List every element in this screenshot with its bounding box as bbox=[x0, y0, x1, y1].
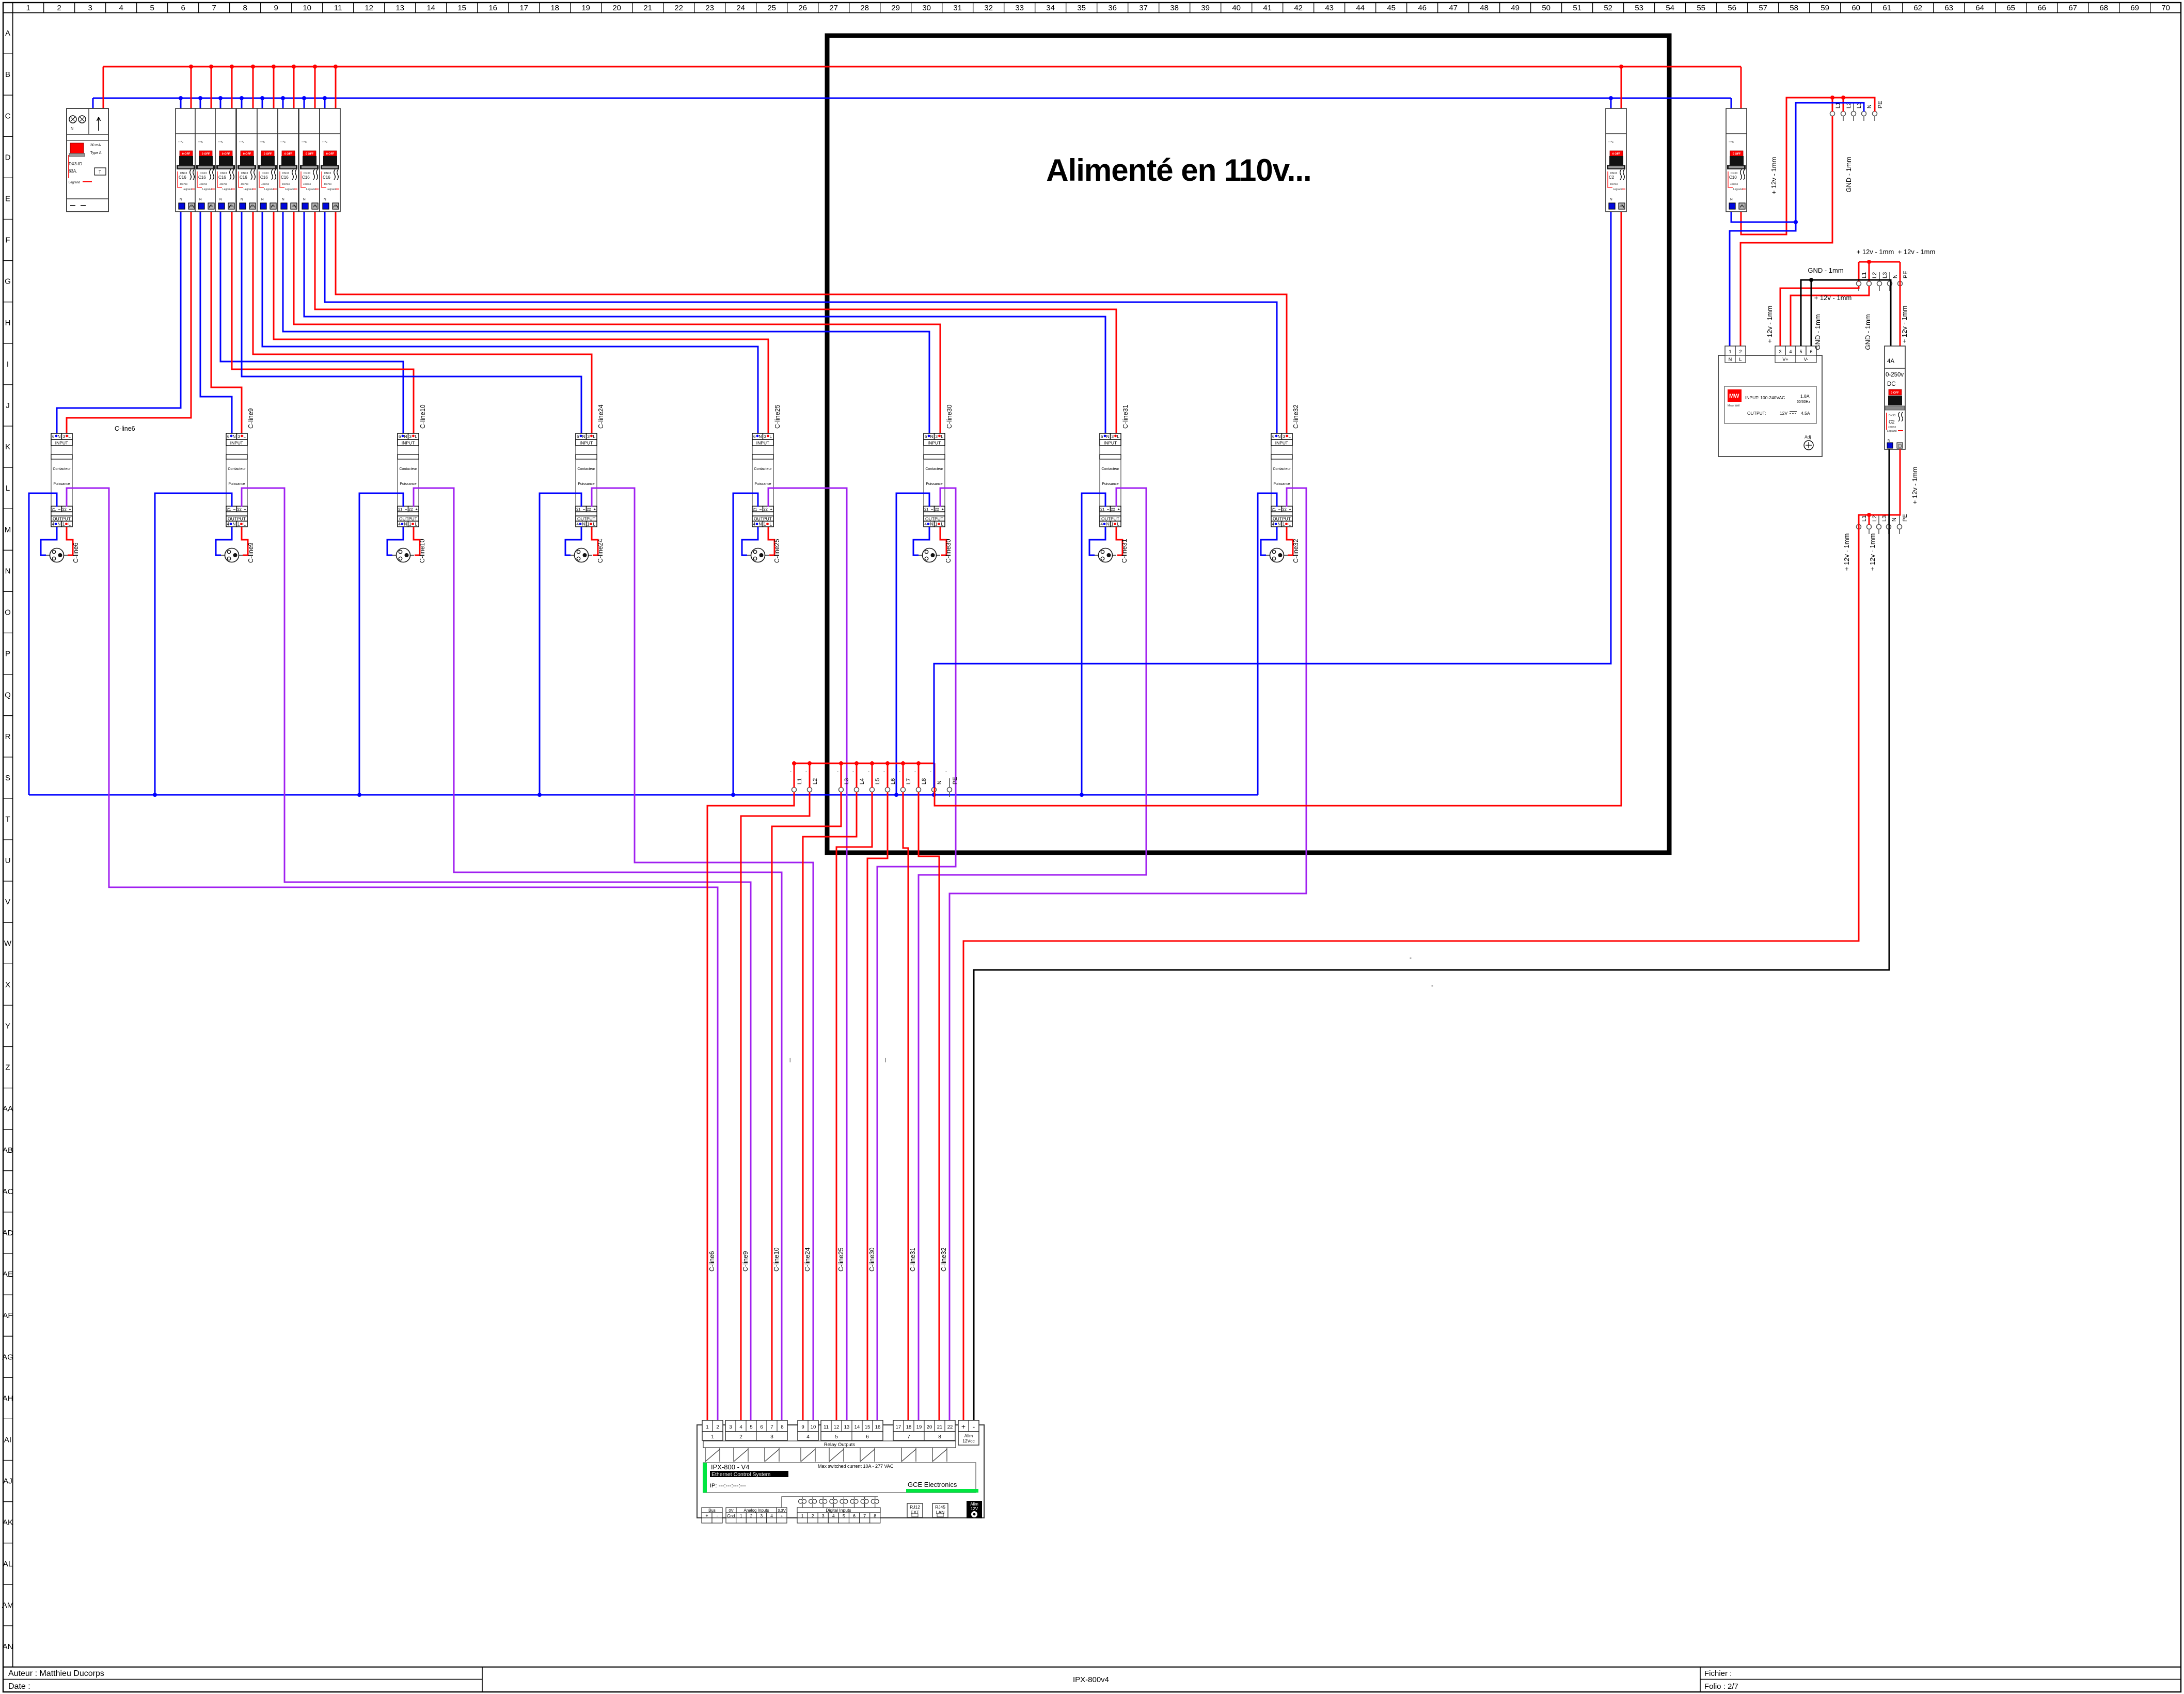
svg-text:20: 20 bbox=[612, 4, 621, 12]
svg-text:3.3V: 3.3V bbox=[778, 1508, 785, 1513]
svg-text:42: 42 bbox=[1294, 4, 1303, 12]
wire GND to IPX bbox=[974, 449, 1889, 1420]
svg-text:AG: AG bbox=[2, 1353, 13, 1361]
svg-text:48: 48 bbox=[1480, 4, 1489, 12]
breaker Q11 4A DC bbox=[1885, 346, 1905, 449]
breaker Q3 C16 bbox=[215, 108, 236, 212]
terminal X2:L1 bbox=[1830, 102, 1835, 121]
svg-text:33: 33 bbox=[1015, 4, 1024, 12]
wire relay common 3 bbox=[772, 792, 841, 1420]
wire breaker Q4 N drop bbox=[241, 98, 243, 109]
contactor KM7 C-line31 bbox=[1100, 433, 1121, 527]
svg-text:L1: L1 bbox=[1861, 515, 1868, 522]
wire breaker Q7 N drop bbox=[304, 98, 305, 109]
svg-text:C10: C10 bbox=[1729, 175, 1737, 180]
wire breaker Q4 L drop bbox=[252, 67, 254, 109]
svg-text:36: 36 bbox=[1108, 4, 1117, 12]
wire feed C-line30 L bbox=[294, 212, 940, 436]
svg-text:10: 10 bbox=[303, 4, 311, 12]
svg-text:41: 41 bbox=[1263, 4, 1272, 12]
svg-text:+ 12v - 1mm: + 12v - 1mm bbox=[1857, 248, 1894, 256]
svg-text:X: X bbox=[5, 980, 10, 989]
svg-text:6: 6 bbox=[1810, 349, 1812, 354]
svg-text:+ 12v - 1mm: + 12v - 1mm bbox=[1814, 294, 1852, 302]
wire socket C-line6 N bbox=[41, 527, 57, 555]
svg-text:46: 46 bbox=[1418, 4, 1427, 12]
wire coil + C-line24 bbox=[592, 488, 813, 1420]
svg-text:N: N bbox=[1866, 104, 1873, 108]
top ruler column strip bbox=[3, 12, 2181, 13]
terminal X3:L3 bbox=[1877, 272, 1882, 291]
svg-text:68: 68 bbox=[2099, 4, 2108, 12]
svg-text:+ 12v - 1mm: + 12v - 1mm bbox=[1869, 534, 1876, 571]
svg-text:AA: AA bbox=[3, 1105, 13, 1113]
svg-text:C-line32: C-line32 bbox=[1292, 539, 1300, 563]
wire socket C-line32 N bbox=[1261, 527, 1277, 555]
svg-text:-: - bbox=[930, 769, 931, 774]
svg-text:O: O bbox=[5, 608, 11, 617]
socket outlet C-line25 bbox=[747, 548, 769, 562]
node junction 427,190 bbox=[218, 96, 223, 100]
svg-text:4: 4 bbox=[1789, 349, 1792, 354]
svg-text:Digital Inputs: Digital Inputs bbox=[826, 1508, 851, 1513]
differential switch DX3-ID 63A bbox=[67, 108, 108, 212]
svg-text:29: 29 bbox=[891, 4, 900, 12]
contactor KM4 C-line24 bbox=[576, 433, 597, 527]
svg-text:G: G bbox=[5, 277, 11, 286]
svg-text:406763: 406763 bbox=[1888, 426, 1896, 428]
svg-text:1: 1 bbox=[1729, 349, 1731, 354]
wire coil - C-line30 bbox=[896, 493, 929, 795]
node junction 3620,507 bbox=[1867, 260, 1871, 264]
svg-text:32: 32 bbox=[984, 4, 993, 12]
svg-text:11: 11 bbox=[334, 4, 342, 12]
wire breaker Q5 L drop bbox=[273, 67, 275, 109]
wire X4 L2 stub bbox=[1869, 515, 1870, 525]
node junction 1568,1478 bbox=[808, 761, 812, 765]
wire coil - C-line24 bbox=[540, 493, 581, 795]
svg-text:Adj: Adj bbox=[1805, 434, 1811, 440]
svg-text:20: 20 bbox=[927, 1424, 932, 1430]
wire N feed from Q9 bbox=[934, 212, 1611, 788]
wire X1 L8 stub bbox=[918, 763, 920, 788]
svg-text:INPUT: 100-240VAC: INPUT: 100-240VAC bbox=[1745, 395, 1785, 400]
svg-text:44: 44 bbox=[1356, 4, 1365, 12]
svg-text:24: 24 bbox=[736, 4, 745, 12]
wire X3 12v jumper bbox=[1859, 261, 1900, 263]
wire X3 L2 stub bbox=[1869, 262, 1870, 281]
svg-text:14: 14 bbox=[854, 1424, 860, 1430]
node junction 696,1539 bbox=[357, 793, 361, 797]
svg-text:AJ: AJ bbox=[3, 1477, 12, 1486]
wire relay common 5 bbox=[836, 792, 872, 1420]
svg-text:62: 62 bbox=[1913, 4, 1922, 12]
svg-text:69: 69 bbox=[2130, 4, 2139, 12]
svg-text:-: - bbox=[805, 769, 807, 774]
wire feed C-line24 L bbox=[253, 212, 592, 436]
svg-text:+ 12v - 1mm: + 12v - 1mm bbox=[1898, 248, 1936, 256]
terminal X1:N bbox=[932, 778, 937, 797]
wire coil + C-line6 bbox=[67, 488, 718, 1420]
wire Q10 L to X2 bbox=[1741, 98, 1875, 234]
svg-text:26: 26 bbox=[798, 4, 807, 12]
svg-text:Folio : 2/7: Folio : 2/7 bbox=[1704, 1682, 1738, 1691]
wire 12v+ B bbox=[1791, 286, 1869, 346]
wire coil + C-line10 bbox=[414, 488, 782, 1420]
wire 12v feed from Q9 bbox=[935, 212, 1621, 806]
svg-text:Q: Q bbox=[5, 691, 11, 700]
wire breaker Q6 L drop bbox=[293, 67, 295, 109]
wire 12v to Q11 bbox=[1900, 262, 1901, 346]
svg-text:63A.: 63A. bbox=[69, 169, 77, 174]
wire feed C-line31 N bbox=[304, 212, 1105, 436]
svg-text:15: 15 bbox=[457, 4, 466, 12]
svg-text:+ 12v - 1mm: + 12v - 1mm bbox=[1901, 306, 1908, 343]
svg-text:L7: L7 bbox=[906, 778, 912, 785]
svg-text:22: 22 bbox=[674, 4, 683, 12]
wire feed C-line9 N bbox=[200, 212, 232, 436]
svg-text:V+: V+ bbox=[1782, 357, 1788, 362]
svg-text:12Vcc: 12Vcc bbox=[962, 1438, 975, 1444]
svg-text:|: | bbox=[885, 1057, 886, 1062]
wire coil - C-line31 bbox=[1082, 493, 1105, 795]
svg-text:2: 2 bbox=[739, 1434, 742, 1440]
svg-text:RJ12: RJ12 bbox=[910, 1504, 920, 1510]
svg-text:C-line30: C-line30 bbox=[868, 1247, 876, 1272]
terminal X4:L1 bbox=[1857, 515, 1861, 534]
node junction 300,1539 bbox=[153, 793, 157, 797]
svg-text:N: N bbox=[1892, 274, 1898, 278]
svg-text:8: 8 bbox=[243, 4, 247, 12]
svg-text:DC: DC bbox=[1887, 381, 1896, 387]
svg-text:66: 66 bbox=[2037, 4, 2046, 12]
svg-text:43: 43 bbox=[1325, 4, 1334, 12]
svg-text:16: 16 bbox=[488, 4, 497, 12]
svg-text:GND - 1mm: GND - 1mm bbox=[1814, 314, 1822, 350]
svg-text:C-line9: C-line9 bbox=[247, 408, 255, 429]
svg-text:AF: AF bbox=[3, 1311, 12, 1320]
svg-text:27: 27 bbox=[829, 4, 838, 12]
wire breaker Q6 N drop bbox=[282, 98, 284, 109]
node junction 3120,190 bbox=[1609, 96, 1613, 100]
svg-text:+ 12v - 1mm: + 12v - 1mm bbox=[1770, 157, 1778, 195]
contactor KM1 C-line6 bbox=[51, 433, 72, 527]
wire 12v+ A bbox=[1780, 286, 1859, 346]
svg-text:B: B bbox=[5, 70, 10, 79]
svg-text:55: 55 bbox=[1697, 4, 1705, 12]
node junction 1629,1478 bbox=[839, 761, 843, 765]
node junction 508,190 bbox=[260, 96, 264, 100]
svg-text:-: - bbox=[868, 769, 869, 774]
svg-text:Type A: Type A bbox=[90, 151, 102, 155]
svg-text:40: 40 bbox=[1232, 4, 1241, 12]
svg-text:-: - bbox=[883, 769, 885, 774]
svg-text:C2: C2 bbox=[1609, 175, 1615, 180]
svg-text:1: 1 bbox=[26, 4, 30, 12]
svg-text:AK: AK bbox=[3, 1518, 13, 1527]
svg-text:64: 64 bbox=[1975, 4, 1984, 12]
node junction 650,129 bbox=[334, 65, 338, 69]
svg-text:A: A bbox=[5, 29, 10, 38]
svg-text:GND - 1mm: GND - 1mm bbox=[1864, 314, 1872, 350]
svg-text:8: 8 bbox=[781, 1424, 783, 1430]
terminal X4:PE bbox=[1897, 515, 1902, 534]
module IPX-800 V4 bbox=[697, 1420, 984, 1523]
wire socket C-line31 L bbox=[1116, 527, 1122, 555]
svg-text:C-line9: C-line9 bbox=[247, 542, 255, 563]
svg-text:C-line32: C-line32 bbox=[1292, 404, 1300, 429]
svg-text:Max switched current 10A - 277: Max switched current 10A - 277 VAC bbox=[818, 1464, 894, 1469]
svg-text:+ 12v - 1mm: + 12v - 1mm bbox=[1766, 306, 1774, 343]
wire feed C-line30 N bbox=[283, 212, 929, 436]
wire feed C-line24 N bbox=[242, 212, 581, 436]
svg-text:18: 18 bbox=[550, 4, 559, 12]
breaker Q10 C10 bbox=[1726, 108, 1747, 212]
svg-text:30 mA: 30 mA bbox=[90, 144, 101, 147]
node junction 629,190 bbox=[323, 96, 327, 100]
terminal X3:PE bbox=[1898, 272, 1903, 291]
svg-text:-: - bbox=[973, 1422, 975, 1431]
svg-text:21: 21 bbox=[937, 1424, 943, 1430]
wire feed C-line31 L bbox=[315, 212, 1116, 436]
svg-text:25: 25 bbox=[767, 4, 776, 12]
svg-text:C-line30: C-line30 bbox=[945, 539, 952, 563]
svg-text:9: 9 bbox=[274, 4, 278, 12]
svg-text:AE: AE bbox=[3, 1270, 13, 1279]
wire breaker Q8 N drop bbox=[324, 98, 326, 109]
contactor KM3 C-line10 bbox=[398, 433, 419, 527]
svg-text:6: 6 bbox=[181, 4, 185, 12]
svg-text:47: 47 bbox=[1449, 4, 1458, 12]
svg-text:4: 4 bbox=[119, 4, 123, 12]
svg-text:7: 7 bbox=[907, 1434, 910, 1440]
svg-text:AB: AB bbox=[3, 1146, 13, 1155]
svg-text:IPX-800v4: IPX-800v4 bbox=[1073, 1675, 1109, 1684]
svg-text:Legrand: Legrand bbox=[1887, 430, 1897, 433]
wire blue bus bbox=[93, 98, 1731, 99]
node junction 1538,1478 bbox=[792, 761, 796, 765]
svg-text:DNX3: DNX3 bbox=[1889, 414, 1896, 417]
wire relay common 4 bbox=[803, 792, 857, 1420]
terminal X3:L2 bbox=[1867, 272, 1872, 291]
svg-text:0V: 0V bbox=[729, 1508, 733, 1513]
node junction 2095,1539 bbox=[1080, 793, 1084, 797]
svg-text:N: N bbox=[71, 127, 73, 131]
node junction 1420,1539 bbox=[731, 793, 735, 797]
wire socket C-line9 N bbox=[216, 527, 232, 555]
terminal X4:L2 bbox=[1867, 515, 1872, 534]
wire breaker Q9 L drop bbox=[1621, 67, 1622, 109]
wire coil + C-line32 bbox=[949, 488, 1306, 1420]
svg-text:17: 17 bbox=[519, 4, 528, 12]
breaker Q9 C2 bbox=[1606, 108, 1626, 212]
terminal X1:L2 bbox=[808, 778, 812, 797]
svg-text:PE: PE bbox=[1903, 271, 1909, 278]
svg-text:2: 2 bbox=[716, 1424, 719, 1430]
svg-text:Alimenté en 110v...: Alimenté en 110v... bbox=[1046, 153, 1311, 187]
svg-text:-: - bbox=[914, 769, 916, 774]
svg-text:19: 19 bbox=[916, 1424, 922, 1430]
wire X1 12v jumper bbox=[794, 763, 935, 764]
svg-text:8: 8 bbox=[938, 1434, 941, 1440]
node junction 1749,1478 bbox=[901, 761, 905, 765]
svg-text:C-line6: C-line6 bbox=[115, 425, 135, 432]
wire socket C-line30 L bbox=[940, 527, 946, 555]
svg-text:Z: Z bbox=[5, 1063, 10, 1072]
wire coil - C-line9 bbox=[155, 493, 232, 795]
svg-text:19: 19 bbox=[581, 4, 590, 12]
contactor KM8 C-line32 bbox=[1271, 433, 1292, 527]
wire breaker Q8 L drop bbox=[335, 67, 337, 109]
svg-text:12: 12 bbox=[834, 1424, 840, 1430]
svg-text:12: 12 bbox=[365, 4, 373, 12]
wire X1 L3 stub bbox=[841, 763, 842, 788]
wire coil return bus bbox=[29, 794, 1258, 796]
svg-text:+: + bbox=[961, 1422, 966, 1431]
svg-text:F: F bbox=[5, 236, 10, 245]
svg-text:6: 6 bbox=[866, 1434, 869, 1440]
svg-text:Legrand: Legrand bbox=[69, 181, 80, 184]
svg-text:GND - 1mm: GND - 1mm bbox=[1845, 156, 1853, 192]
svg-text:C-line24: C-line24 bbox=[804, 1247, 811, 1272]
terminal X1:L6 bbox=[885, 778, 890, 797]
contactor KM5 C-line25 bbox=[752, 433, 773, 527]
wire X1 N stub bbox=[933, 792, 935, 795]
svg-text:Alim: Alim bbox=[964, 1433, 973, 1438]
svg-text:59: 59 bbox=[1821, 4, 1829, 12]
svg-text:52: 52 bbox=[1604, 4, 1612, 12]
svg-text:45: 45 bbox=[1387, 4, 1396, 12]
svg-text:L: L bbox=[1739, 357, 1742, 362]
wire breaker Q10 L drop bbox=[1740, 67, 1742, 109]
svg-text:C2: C2 bbox=[1889, 419, 1895, 425]
svg-text:63: 63 bbox=[1944, 4, 1953, 12]
node junction 1045,1539 bbox=[537, 793, 542, 797]
svg-text:AH: AH bbox=[3, 1394, 13, 1403]
wire feed C-line25 L bbox=[274, 212, 768, 436]
wire breaker Q1 N drop bbox=[180, 98, 182, 109]
svg-text:65: 65 bbox=[2006, 4, 2015, 12]
wire feed C-line6 L bbox=[67, 212, 191, 436]
svg-text:Analog Inputs: Analog Inputs bbox=[744, 1508, 769, 1513]
svg-text:30: 30 bbox=[922, 4, 931, 12]
breaker Q4 C16 bbox=[236, 108, 257, 212]
svg-text:C-line10: C-line10 bbox=[419, 404, 426, 429]
wire DX3 N riser bbox=[92, 98, 94, 109]
svg-text:AL: AL bbox=[3, 1560, 12, 1568]
wire X3 L1 stub bbox=[1858, 262, 1860, 281]
svg-text:Mean Well: Mean Well bbox=[1728, 404, 1740, 407]
svg-text:49: 49 bbox=[1511, 4, 1520, 12]
svg-text:-: - bbox=[945, 769, 947, 774]
svg-text:C-line25: C-line25 bbox=[837, 1247, 845, 1272]
terminal X1:L8 bbox=[916, 778, 921, 797]
svg-text:C-line6: C-line6 bbox=[72, 542, 80, 563]
svg-text:Relay Outputs: Relay Outputs bbox=[824, 1442, 855, 1448]
svg-text:L1: L1 bbox=[797, 778, 803, 785]
socket outlet C-line30 bbox=[919, 548, 940, 562]
svg-text:1: 1 bbox=[706, 1424, 708, 1430]
node junction 3549,189 bbox=[1830, 96, 1834, 100]
terminal X1:L7 bbox=[901, 778, 906, 797]
node junction 1779,1478 bbox=[916, 761, 921, 765]
svg-text:5: 5 bbox=[750, 1424, 752, 1430]
svg-text:31: 31 bbox=[953, 4, 962, 12]
svg-text:13: 13 bbox=[844, 1424, 850, 1430]
svg-text:57: 57 bbox=[1759, 4, 1767, 12]
svg-text:4: 4 bbox=[739, 1424, 742, 1430]
svg-text:L5: L5 bbox=[875, 778, 881, 785]
wire breaker Q3 N drop bbox=[220, 98, 221, 109]
wire breaker Q5 N drop bbox=[262, 98, 263, 109]
svg-text:58: 58 bbox=[1790, 4, 1798, 12]
wire breaker Q3 L drop bbox=[231, 67, 233, 109]
svg-text:C-line10: C-line10 bbox=[419, 539, 426, 563]
svg-text:28: 28 bbox=[860, 4, 869, 12]
terminal X3:N bbox=[1888, 272, 1892, 291]
svg-text:L3: L3 bbox=[1882, 272, 1888, 278]
wire X2 L2 stub bbox=[1843, 98, 1844, 112]
contactor KM2 C-line9 bbox=[226, 433, 247, 527]
terminal X3:L1 bbox=[1857, 272, 1861, 291]
svg-text:RJ45: RJ45 bbox=[935, 1504, 945, 1510]
svg-text:H: H bbox=[5, 319, 11, 327]
wire X1 L1 stub bbox=[794, 763, 795, 788]
svg-text:Date :: Date : bbox=[8, 1682, 30, 1691]
svg-text:C-line9: C-line9 bbox=[742, 1251, 749, 1272]
wire PSU L feed bbox=[1740, 116, 1832, 346]
svg-text:OUTPUT:: OUTPUT: bbox=[1747, 411, 1766, 416]
wire coil + C-line30 bbox=[877, 488, 956, 1420]
svg-text:D: D bbox=[5, 153, 11, 162]
svg-text:+ 12v - 1mm: + 12v - 1mm bbox=[1843, 534, 1850, 571]
breaker Q2 C16 bbox=[195, 108, 216, 212]
svg-text:3: 3 bbox=[729, 1424, 732, 1430]
svg-text:7: 7 bbox=[770, 1424, 773, 1430]
svg-text:-: - bbox=[899, 769, 900, 774]
socket outlet C-line31 bbox=[1095, 548, 1116, 562]
terminal X4:N bbox=[1887, 515, 1891, 534]
svg-text:2: 2 bbox=[1739, 349, 1742, 354]
svg-text:61: 61 bbox=[1882, 4, 1891, 12]
wire relay common 7 bbox=[903, 792, 908, 1420]
svg-text:C-line6: C-line6 bbox=[708, 1251, 716, 1272]
svg-text:15: 15 bbox=[865, 1424, 871, 1430]
svg-text:L2: L2 bbox=[1872, 272, 1878, 278]
wire coil - C-line32 bbox=[1258, 493, 1277, 795]
svg-text:70: 70 bbox=[2161, 4, 2170, 12]
svg-text:18: 18 bbox=[906, 1424, 912, 1430]
wire socket C-line24 L bbox=[592, 527, 598, 555]
svg-text:PE: PE bbox=[952, 777, 958, 785]
svg-text:37: 37 bbox=[1139, 4, 1148, 12]
wire feed C-line32 L bbox=[336, 212, 1287, 436]
wire breaker Q1 L drop bbox=[191, 67, 192, 109]
breaker Q8 C16 bbox=[320, 108, 340, 212]
svg-text:2: 2 bbox=[57, 4, 61, 12]
wire feed C-line32 N bbox=[325, 212, 1277, 436]
terminal X2:L2 bbox=[1841, 102, 1846, 121]
svg-text:C-line25: C-line25 bbox=[774, 404, 781, 429]
svg-text:1.8A: 1.8A bbox=[1800, 394, 1810, 399]
svg-text:PE: PE bbox=[1877, 101, 1884, 108]
terminal X1:L4 bbox=[854, 778, 859, 797]
svg-text:C-line30: C-line30 bbox=[946, 404, 953, 429]
socket outlet C-line10 bbox=[392, 548, 414, 562]
wire relay common 8 bbox=[919, 792, 939, 1420]
svg-text:J: J bbox=[6, 401, 10, 410]
svg-text:67: 67 bbox=[2068, 4, 2077, 12]
